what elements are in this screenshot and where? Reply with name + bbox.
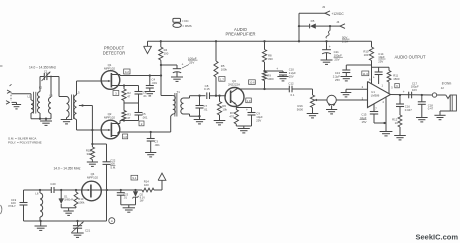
ground C18 xyxy=(416,118,428,122)
node voltage box 6 at pin 5 xyxy=(395,84,400,89)
svg-text:2.5A: 2.5A xyxy=(342,40,348,44)
svg-text:10μF: 10μF xyxy=(360,116,367,120)
svg-text:DETECTOR: DETECTOR xyxy=(103,50,125,55)
label 14.0-14.350 MHz VFO xyxy=(54,166,81,170)
wire J3 +12VDC entry xyxy=(299,13,325,41)
svg-text:0.15: 0.15 xyxy=(204,87,210,91)
resistor R10 100 xyxy=(363,41,373,84)
wire R4 node to bypass cap xyxy=(161,64,177,66)
zener diode D2 9.1V 1W xyxy=(133,190,146,205)
ground pin 2 xyxy=(341,93,352,97)
wire R2 C6 node xyxy=(124,102,139,104)
capacitor C23 .01 xyxy=(117,190,129,205)
resistor R12 10 xyxy=(392,115,402,136)
svg-text:10k: 10k xyxy=(222,107,227,111)
svg-text:6: 6 xyxy=(369,78,371,82)
transistor Q2 MPF102 xyxy=(92,112,120,139)
svg-text:.001: .001 xyxy=(152,81,158,85)
svg-text:+: + xyxy=(182,62,184,66)
ground Q3 emitter xyxy=(238,129,250,133)
wire Q4 gate line dots xyxy=(60,189,77,191)
wire T1 primary bottom to Q2 source line xyxy=(171,114,173,132)
svg-text:POLY. = POLYSTYRENE: POLY. = POLYSTYRENE xyxy=(8,141,42,145)
wire supply to R4 xyxy=(160,40,162,42)
capacitor C7 .01 xyxy=(196,96,208,120)
resistor R8 330 xyxy=(262,40,273,72)
svg-text:= RMS: = RMS xyxy=(182,24,191,28)
connector J4 xyxy=(336,20,345,28)
inductor L1 xyxy=(28,95,34,114)
capacitor C10 2.2uF 25V xyxy=(279,67,296,78)
svg-text:330: 330 xyxy=(268,57,273,61)
wire emitter bottom rail xyxy=(236,126,251,129)
transistor Q3 2N2222A xyxy=(225,79,244,107)
ground VFO rail xyxy=(35,221,47,230)
svg-text:100: 100 xyxy=(164,52,169,56)
svg-text:A: A xyxy=(111,219,113,223)
wire L5 top to Q1 gate xyxy=(77,81,102,95)
trimmer capacitor C1 xyxy=(42,70,51,81)
ground C4 xyxy=(145,92,155,96)
wire Q3 collector line xyxy=(238,87,290,90)
svg-text:1000: 1000 xyxy=(267,77,274,81)
capacitor C5 .001 xyxy=(135,103,148,121)
capacitor C16 0.047 zobel xyxy=(396,95,412,115)
transformer core L4-L5 xyxy=(72,95,74,120)
capacitor C8 0.15 coupling xyxy=(204,84,226,99)
svg-text:1W: 1W xyxy=(140,198,144,202)
svg-text:100: 100 xyxy=(144,183,149,187)
svg-text:1.9: 1.9 xyxy=(247,99,251,103)
svg-text:J2: J2 xyxy=(441,86,444,90)
phone plug J2 xyxy=(437,95,457,115)
capacitor C20 coupling xyxy=(50,182,89,193)
svg-text:1.7: 1.7 xyxy=(220,77,224,81)
svg-text:AUDIO OUTPUT: AUDIO OUTPUT xyxy=(395,54,426,59)
wire Q3 emitter network xyxy=(236,105,251,110)
svg-text:1: 1 xyxy=(382,83,384,87)
ground J2 sleeve xyxy=(434,115,445,119)
svg-text:10: 10 xyxy=(395,121,399,125)
note S.M. and POLY definitions xyxy=(8,136,42,144)
wire pin 2 to ground xyxy=(346,89,368,92)
node voltage box 9.1 xyxy=(131,175,138,180)
svg-text:25V: 25V xyxy=(335,78,340,82)
ground 100uF xyxy=(171,77,183,81)
svg-text:LM386: LM386 xyxy=(371,93,380,97)
svg-text:0.47: 0.47 xyxy=(428,107,434,111)
capacitor C17 100uF output coupling xyxy=(403,81,419,98)
svg-text:.01: .01 xyxy=(123,196,127,200)
svg-text:2N2222A: 2N2222A xyxy=(228,83,240,87)
svg-text:25V: 25V xyxy=(334,58,339,62)
node voltage box at Q3 emitter xyxy=(246,98,252,103)
svg-text:10.6: 10.6 xyxy=(249,81,255,85)
svg-text:PREAMPLIFIER: PREAMPLIFIER xyxy=(225,31,255,36)
resistor R5 100k xyxy=(214,40,228,96)
transformer core L1-L2 xyxy=(34,92,36,114)
wire T1 secondary bottom xyxy=(184,114,201,117)
wire pin6 node to C13 xyxy=(346,64,371,66)
svg-text:+: + xyxy=(373,75,375,79)
capacitor 100uF 25V detector supply bypass xyxy=(173,56,198,77)
terminal circle output xyxy=(432,93,436,97)
svg-text:+: + xyxy=(403,90,405,94)
capacitor C9 10uF 25V xyxy=(246,108,263,126)
svg-text:47: 47 xyxy=(127,94,131,98)
ground C10 xyxy=(277,77,288,81)
inductor L4 xyxy=(67,97,70,118)
svg-text:S.M.: S.M. xyxy=(110,165,116,169)
antenna input xyxy=(6,84,12,104)
wire Q1 source xyxy=(112,84,139,86)
capacitor C11 100uF 25V bus bypass xyxy=(322,41,343,61)
op-amp U1 LM386 xyxy=(362,78,394,111)
watermark SeekIC.com xyxy=(415,233,458,242)
svg-text:+: + xyxy=(329,45,331,49)
wire L2 top to C1 xyxy=(40,77,45,92)
resistor R14 100 xyxy=(142,180,162,192)
resistor R7 470 xyxy=(229,110,238,127)
wire J1 to pin 3 xyxy=(336,99,367,101)
svg-text:.001: .001 xyxy=(154,143,160,147)
svg-text:100k: 100k xyxy=(221,67,228,71)
ground R15 xyxy=(87,162,98,166)
resistor R6 10k xyxy=(217,96,227,121)
node voltage box at Q2 drain xyxy=(139,121,144,126)
inductor L5 xyxy=(74,91,80,120)
ground R6 xyxy=(214,121,226,125)
svg-text:1500: 1500 xyxy=(393,77,400,81)
capacitor C13 2.2uF 25V bypass xyxy=(333,65,351,82)
ground R12 xyxy=(394,136,406,140)
wire VFO bottom rail xyxy=(24,220,107,222)
svg-text:2: 2 xyxy=(141,122,143,126)
wire L1 L2 L3 bottom rail xyxy=(31,113,51,121)
wire antenna to L1 xyxy=(12,94,32,100)
ground L4 xyxy=(61,120,73,124)
ground C7 xyxy=(194,120,206,124)
capacitor C6 .01 xyxy=(135,86,148,104)
svg-text:100k: 100k xyxy=(78,200,85,204)
capacitor C4 .001 to ground xyxy=(146,76,158,92)
svg-text:10V: 10V xyxy=(412,88,417,92)
connector J3 xyxy=(322,5,344,16)
svg-text:4.2: 4.2 xyxy=(125,70,129,74)
svg-text:.001: .001 xyxy=(142,115,148,119)
ground input transformer xyxy=(40,121,52,125)
svg-text:MPF102: MPF102 xyxy=(104,116,115,120)
wire Q1 drain line xyxy=(120,74,161,76)
capacitor C18 0.47 xyxy=(418,95,434,118)
svg-text:15V: 15V xyxy=(362,120,367,124)
ground pin 4 xyxy=(380,132,393,136)
capacitor C15 10uF 15V pin7 bypass xyxy=(360,104,387,124)
wire Q2 gate node to C22 xyxy=(92,144,106,162)
svg-text:D5: D5 xyxy=(311,19,315,23)
svg-text:C20: C20 xyxy=(50,182,56,186)
label 14.0-14.350 MHz input xyxy=(29,65,56,69)
svg-text:33k: 33k xyxy=(86,152,91,156)
ground C21 xyxy=(71,233,83,237)
resistor R11 1500 xyxy=(387,67,400,94)
wire R4 node to T1 primary xyxy=(160,64,173,96)
capacitor C3 .001 to ground xyxy=(147,132,160,153)
resistor R3 47 xyxy=(122,103,131,121)
diode D5 xyxy=(310,19,330,29)
wire tap down to Q2 gate node xyxy=(91,106,93,145)
svg-text:5600: 5600 xyxy=(297,108,304,112)
svg-text:8 Ohm: 8 Ohm xyxy=(442,81,452,85)
svg-text:3: 3 xyxy=(115,92,117,96)
connector to VFO supply (down triangle) xyxy=(144,41,152,53)
svg-text:47: 47 xyxy=(127,116,131,120)
capacitor C14 10uF 25V xyxy=(373,52,386,84)
wire Q2 drain node xyxy=(120,119,139,123)
svg-text:C12: C12 xyxy=(288,82,294,86)
ground C3 xyxy=(145,153,156,157)
svg-text:L1: L1 xyxy=(28,95,31,99)
transformer T1 core xyxy=(175,93,177,117)
node voltage box 1.7 at Q3 base xyxy=(219,77,225,82)
ground C11 xyxy=(321,60,333,64)
resistor R9 1000 xyxy=(262,72,274,91)
svg-text:11.6: 11.6 xyxy=(363,72,369,76)
wire Q2 source line xyxy=(118,131,171,136)
resistor R13 100k xyxy=(74,190,85,208)
svg-text:14.0 – 14.350 MHz: 14.0 – 14.350 MHz xyxy=(29,65,56,69)
ground J1 xyxy=(326,110,337,114)
svg-text:0.047: 0.047 xyxy=(405,108,412,112)
inductor L6 xyxy=(35,190,42,221)
svg-text:L6: L6 xyxy=(35,191,39,195)
svg-text:25V: 25V xyxy=(256,118,261,122)
wire antenna to ground xyxy=(12,102,17,104)
variable capacitor C21 tuning xyxy=(72,221,91,233)
svg-text:5: 5 xyxy=(391,85,393,89)
svg-text:= DC: = DC xyxy=(182,19,190,23)
svg-text:C21: C21 xyxy=(85,228,91,232)
label AUDIO OUTPUT xyxy=(395,54,426,59)
svg-text:25V: 25V xyxy=(378,59,383,63)
wire 9.1V rail from Q4 xyxy=(91,189,142,191)
wire to L4 top xyxy=(59,96,67,98)
inductor L2 xyxy=(37,86,42,114)
svg-text:2: 2 xyxy=(362,85,364,89)
capacitor C22 100 S.M. xyxy=(103,159,117,221)
ground C13 xyxy=(341,77,353,81)
svg-text:9.1: 9.1 xyxy=(132,176,136,180)
wire pin 4 to ground xyxy=(383,97,386,131)
svg-text:+12VDC: +12VDC xyxy=(332,12,345,16)
svg-text:100: 100 xyxy=(364,53,369,57)
label 8 Ohm J2 xyxy=(441,81,452,90)
node voltage box 4.2 at Q1 drain xyxy=(124,69,130,74)
ground R16 xyxy=(307,114,319,118)
node voltage box 11.6 at pin 6 xyxy=(362,71,369,76)
wire to J4 xyxy=(329,25,340,27)
svg-text:1N914A: 1N914A xyxy=(64,198,74,202)
ground antenna xyxy=(12,105,21,109)
svg-text:7: 7 xyxy=(375,106,377,110)
svg-text:1.6: 1.6 xyxy=(123,135,127,139)
wire C23 D2 to ground xyxy=(121,205,136,208)
connector +12V from bus (up triangle) xyxy=(158,173,166,190)
svg-text:J4: J4 xyxy=(336,20,339,24)
capacitor C12 0.1 coupling xyxy=(288,82,312,97)
svg-text:C1: C1 xyxy=(44,70,48,74)
svg-text:6: 6 xyxy=(396,84,398,88)
diode D1 1N914A xyxy=(59,190,74,208)
label AUDIO PREAMPLIFIER xyxy=(225,27,255,36)
svg-text:J3: J3 xyxy=(322,5,325,9)
ground C23 D2 xyxy=(123,208,135,212)
svg-text:.01: .01 xyxy=(204,107,208,111)
svg-text:MPF102: MPF102 xyxy=(104,67,115,71)
node voltage box 10.6 at Q3 collector xyxy=(249,80,256,85)
wire L4 to ground xyxy=(66,118,68,120)
node A circled VFO output xyxy=(109,218,115,224)
ground D1 R13 xyxy=(63,211,73,215)
svg-text:SeekIC.com: SeekIC.com xyxy=(415,233,458,242)
inductor L3 xyxy=(49,94,53,114)
svg-text:+: + xyxy=(276,67,278,71)
svg-text:25V: 25V xyxy=(189,61,194,65)
transistor Q4 MPF102 xyxy=(82,172,102,201)
wire T1 secondary top to C8 xyxy=(184,95,206,98)
node voltage box at Q1 source xyxy=(113,91,119,96)
potentiometer R16 5600 volume xyxy=(297,89,327,114)
node voltage box at Q2 source xyxy=(123,134,128,139)
wire +12V bus xyxy=(148,40,372,42)
scan artifact left edge xyxy=(0,66,3,214)
svg-text:MPF102: MPF102 xyxy=(87,176,98,180)
battery pigtail 50V 2.5A xyxy=(326,26,350,43)
legend DC and RMS voltage symbols xyxy=(173,18,192,28)
svg-text:L5: L5 xyxy=(77,91,81,95)
wire C1 to L3 and L4 xyxy=(47,76,59,97)
svg-text:14.0 – 14.350 MHz: 14.0 – 14.350 MHz xyxy=(54,166,81,170)
transformer T1 secondary xyxy=(181,98,184,114)
svg-text:L3: L3 xyxy=(50,94,53,98)
svg-text:.01: .01 xyxy=(143,94,147,98)
wire L5 bottom to Q2 gate line xyxy=(77,120,93,131)
resistor R4 100 xyxy=(159,41,169,64)
svg-text:470: 470 xyxy=(229,114,234,118)
jack J1 phone input xyxy=(327,95,336,109)
wire D5 branch xyxy=(298,25,309,27)
wire D1 R13 to ground xyxy=(61,208,76,211)
svg-text:0.1: 0.1 xyxy=(291,93,295,97)
resistor R2 47 xyxy=(122,86,131,104)
svg-text:25V: 25V xyxy=(289,74,294,78)
node L5 tap xyxy=(79,104,93,106)
svg-text:POLY.: POLY. xyxy=(9,204,17,208)
transistor Q1 MPF102 xyxy=(101,63,120,89)
wire gain network xyxy=(372,66,390,68)
resistor R15 33k Q2 gate to ground xyxy=(86,143,95,162)
transformer T1 primary xyxy=(173,90,180,114)
label PRODUCT DETECTOR xyxy=(103,46,125,56)
svg-text:+: + xyxy=(246,108,248,112)
wire tank top xyxy=(24,189,52,191)
svg-text:4: 4 xyxy=(382,100,384,104)
wire R8 node to C10 xyxy=(265,67,284,71)
wire output pin 5 xyxy=(391,94,433,96)
capacitor C19 100 POLY xyxy=(9,190,28,221)
